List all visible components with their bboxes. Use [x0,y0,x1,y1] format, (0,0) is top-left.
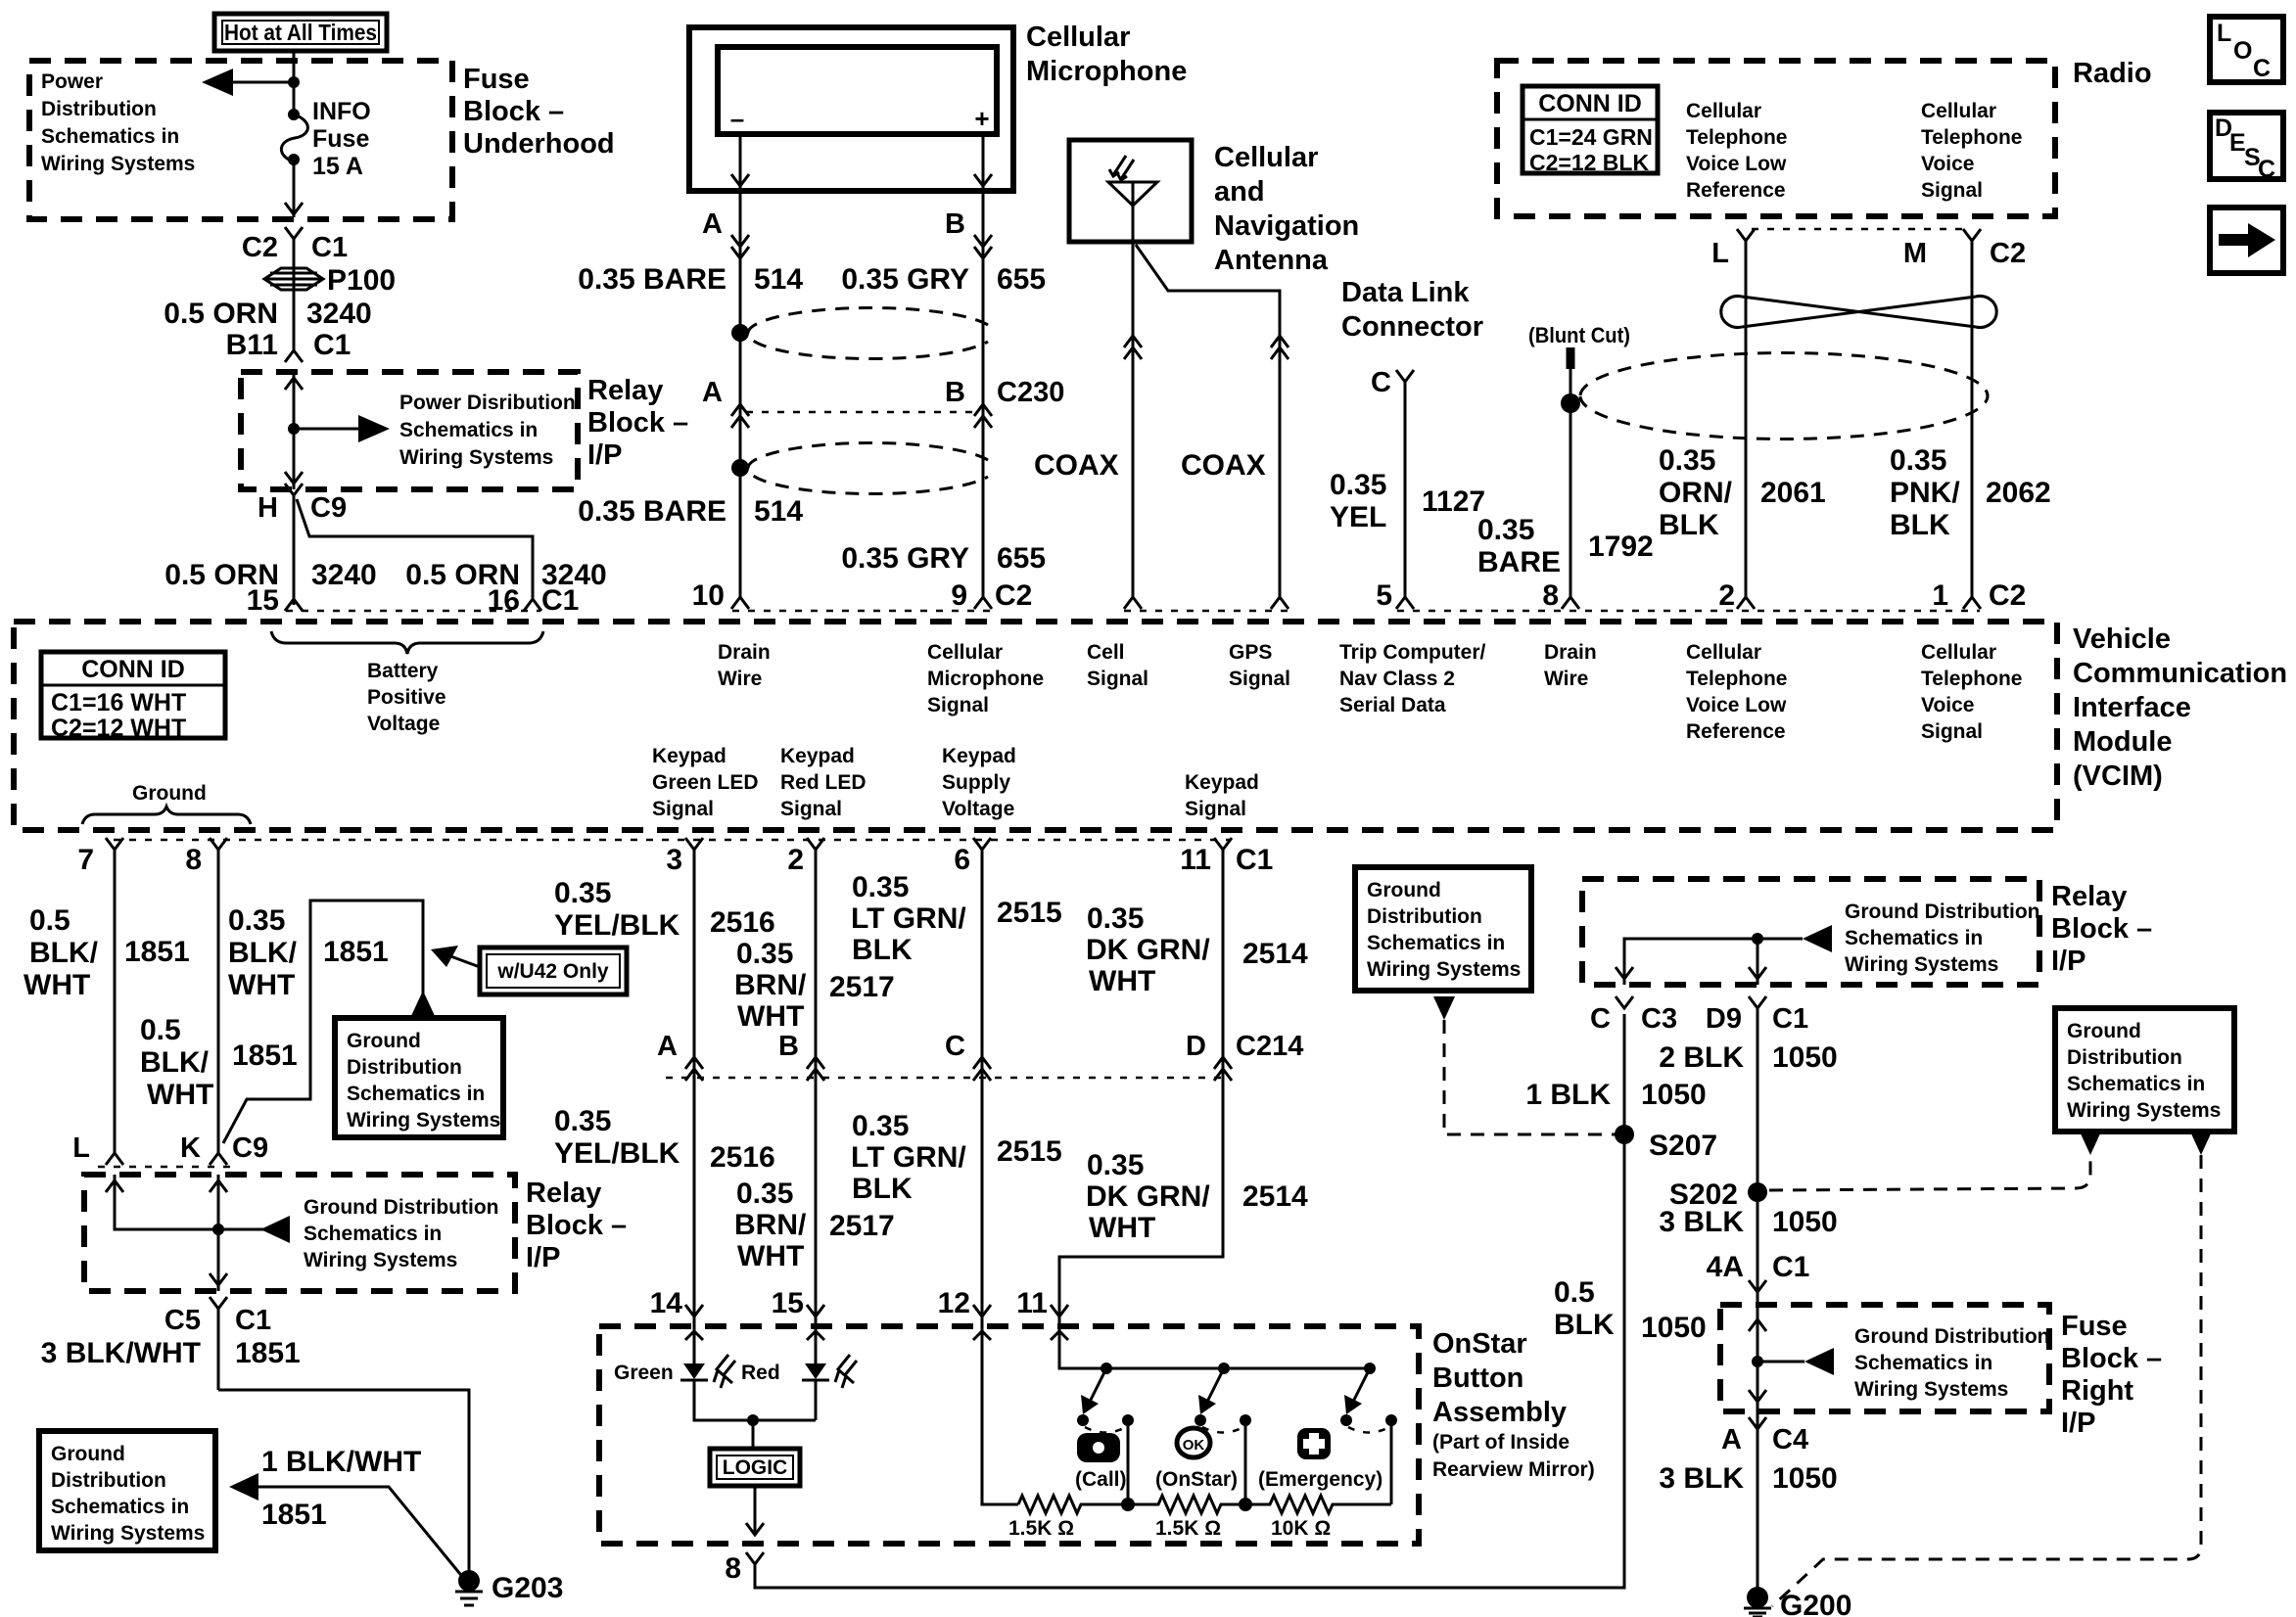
svg-text:C2: C2 [995,579,1032,612]
svg-text:Distribution: Distribution [1367,905,1482,928]
svg-text:10: 10 [692,579,725,612]
svg-text:Block –: Block – [587,407,688,439]
svg-text:1792: 1792 [1588,531,1654,563]
svg-text:–: – [730,104,744,133]
ground distribution schematics box (bottom-left) [39,1431,215,1550]
svg-text:Wiring Systems: Wiring Systems [41,153,195,175]
svg-text:1: 1 [1932,579,1948,612]
svg-text:3240: 3240 [311,559,377,591]
svg-text:P100: P100 [327,264,396,297]
svg-text:Distribution: Distribution [41,98,157,120]
svg-text:Green: Green [614,1362,674,1384]
svg-text:Block –: Block – [463,96,564,127]
wire arrow left power distribution [227,81,294,84]
svg-text:0.35: 0.35 [554,877,611,909]
svg-text:YEL/BLK: YEL/BLK [554,909,680,942]
svg-text:Schematics in: Schematics in [1854,1352,1992,1374]
svg-text:YEL: YEL [1330,501,1386,533]
svg-text:WHT: WHT [737,1240,804,1272]
svg-text:C1=24 GRN: C1=24 GRN [1529,124,1653,150]
svg-text:C2=12 WHT: C2=12 WHT [51,715,186,742]
svg-text:0.35 GRY: 0.35 GRY [841,542,969,575]
svg-text:LT GRN/: LT GRN/ [851,1141,966,1174]
svg-text:C214: C214 [1236,1031,1303,1062]
resistor R1 1.5K ohm (Call) [1018,1496,1128,1513]
svg-text:K: K [180,1132,201,1164]
wires inside right relay block [1624,939,1803,985]
node junction call contact to chain [1121,1498,1135,1511]
svg-text:C: C [2258,156,2275,183]
svg-text:Wiring Systems: Wiring Systems [304,1249,457,1271]
svg-text:BLK: BLK [1659,509,1719,541]
svg-text:Wiring Systems: Wiring Systems [1854,1378,2008,1401]
svg-text:Schematics in: Schematics in [399,419,538,441]
svg-text:Battery: Battery [367,660,439,682]
svg-text:3240: 3240 [306,298,372,330]
svg-text:Distribution: Distribution [2067,1046,2182,1069]
svg-text:0.35 BARE: 0.35 BARE [578,495,726,528]
svg-text:(Blunt Cut): (Blunt Cut) [1528,323,1630,347]
CONN ID box [41,652,225,738]
svg-text:Button: Button [1432,1363,1523,1394]
svg-text:BLK: BLK [1554,1309,1615,1341]
svg-text:D: D [1186,1031,1206,1062]
svg-text:C3: C3 [1641,1003,1677,1035]
svg-text:Cellular: Cellular [927,641,1003,664]
svg-text:C: C [1590,1003,1611,1035]
svg-text:1851: 1851 [232,1039,298,1072]
wires inside relay block [115,1175,218,1291]
svg-text:Relay: Relay [526,1178,601,1209]
svg-text:Block –: Block – [2051,913,2152,945]
svg-text:WHT: WHT [1089,965,1155,997]
svg-text:Telephone: Telephone [1921,126,2022,149]
svg-text:Radio: Radio [2073,58,2152,89]
cellular and navigation antenna box [1069,140,1192,242]
svg-text:Cellular: Cellular [1921,641,1996,664]
big shield ellipse [1580,353,1988,439]
svg-text:1851: 1851 [261,1499,327,1531]
svg-text:WHT: WHT [228,969,295,1001]
svg-text:A: A [702,377,723,408]
svg-text:1851: 1851 [124,936,190,968]
svg-text:ORN/: ORN/ [1659,477,1733,509]
svg-text:+: + [974,104,989,133]
green LED [694,1326,816,1420]
svg-text:Green LED: Green LED [652,771,759,794]
svg-text:5: 5 [1376,579,1392,612]
svg-text:I/P: I/P [2051,946,2085,977]
svg-text:8: 8 [1542,579,1559,612]
svg-text:C2: C2 [1989,579,2026,612]
svg-text:DK GRN/: DK GRN/ [1086,934,1210,966]
svg-text:BRN/: BRN/ [734,969,807,1001]
second shield ellipse with drain dot [731,459,749,477]
svg-text:Keypad: Keypad [652,745,726,767]
svg-text:BLK/: BLK/ [140,1046,210,1079]
wire to ground G203 [218,1390,469,1573]
fuse INFO Fuse 15 A [288,109,300,120]
wire through relay block [293,372,296,489]
svg-text:M: M [1903,238,1927,269]
svg-text:Schematics in: Schematics in [347,1083,485,1105]
svg-text:Red: Red [741,1362,780,1384]
svg-text:7: 7 [77,844,94,876]
mic wire B [982,134,985,597]
svg-text:Block –: Block – [526,1210,627,1241]
svg-text:3: 3 [666,844,682,876]
svg-text:514: 514 [754,263,803,296]
onstar button icon [1177,1428,1210,1457]
svg-text:C2=12 BLK: C2=12 BLK [1529,150,1649,175]
svg-text:C1: C1 [1772,1251,1809,1283]
wire from hot box into fuse block [293,51,296,112]
w/U42 1851 branch [223,901,423,1143]
DESC box [2210,113,2283,179]
svg-text:C1=16 WHT: C1=16 WHT [51,689,186,716]
svg-text:2516: 2516 [710,1141,775,1174]
svg-text:Communication: Communication [2073,658,2287,689]
svg-text:Underhood: Underhood [463,128,615,160]
svg-text:Signal: Signal [1921,179,1983,202]
connector fork C2/C1 [285,227,303,352]
svg-text:WHT: WHT [147,1079,213,1111]
radio box [1497,61,2055,216]
svg-text:Wiring Systems: Wiring Systems [399,446,553,469]
svg-text:2517: 2517 [829,971,895,1003]
svg-text:3 BLK: 3 BLK [1659,1462,1744,1495]
svg-text:0.35: 0.35 [736,1178,793,1210]
resistor R2 1.5K ohm (OnStar) [1128,1496,1245,1513]
svg-text:2 BLK: 2 BLK [1659,1041,1744,1074]
svg-text:Antenna: Antenna [1214,245,1329,276]
fuse block underhood box [29,61,452,219]
svg-text:C1: C1 [311,232,348,263]
svg-text:Data Link: Data Link [1341,277,1470,308]
svg-text:0.35: 0.35 [1477,514,1534,546]
connector A/C4 [1749,1417,1766,1429]
svg-text:Distribution: Distribution [347,1056,462,1079]
svg-text:Power Disribution: Power Disribution [399,392,576,414]
svg-text:6: 6 [954,844,970,876]
svg-text:and: and [1214,176,1265,208]
fuse block right I/P box [1720,1305,2049,1411]
svg-text:C4: C4 [1772,1424,1808,1455]
svg-text:1851: 1851 [323,936,389,968]
svg-text:0.35: 0.35 [736,938,793,970]
svg-text:Voice: Voice [1921,153,1974,175]
svg-text:PNK/: PNK/ [1890,477,1960,509]
svg-text:0.35: 0.35 [1330,469,1386,501]
svg-text:I/P: I/P [587,439,622,471]
w/U42 Only box [480,947,627,994]
svg-text:15: 15 [247,584,279,617]
ground G203 [458,1570,480,1592]
connector fork H/C9 [285,484,303,605]
svg-text:1 BLK: 1 BLK [1525,1079,1611,1111]
svg-text:Relay: Relay [2051,881,2127,912]
splice S207 [1615,1125,1634,1144]
svg-text:WHT: WHT [1089,1212,1155,1244]
svg-text:2515: 2515 [997,897,1062,929]
svg-text:Schematics in: Schematics in [41,125,179,148]
svg-text:C230: C230 [997,377,1064,408]
svg-text:2517: 2517 [829,1210,895,1242]
svg-text:0.35: 0.35 [554,1105,611,1137]
svg-text:G203: G203 [492,1572,563,1604]
relay block I/P box (lower left) [84,1175,515,1291]
resistor R3 10K ohm (Emergency) [1245,1496,1391,1513]
svg-text:WHT: WHT [23,969,90,1001]
svg-text:(VCIM): (VCIM) [2073,761,2163,792]
svg-text:H: H [258,492,278,524]
arrow right to power distribution note [294,428,364,431]
svg-text:Assembly: Assembly [1432,1397,1567,1428]
svg-text:Schematics in: Schematics in [2067,1073,2205,1095]
svg-text:0.35: 0.35 [1087,902,1144,935]
svg-text:C1: C1 [541,584,579,617]
svg-text:0.35 BARE: 0.35 BARE [578,263,726,296]
svg-text:C2: C2 [242,232,278,263]
svg-text:Schematics in: Schematics in [51,1496,189,1518]
svg-text:G200: G200 [1780,1590,1851,1617]
svg-text:1851: 1851 [235,1337,301,1369]
pin 7 wire [106,838,123,1153]
svg-text:Interface: Interface [2073,692,2191,723]
svg-text:WHT: WHT [737,1000,804,1033]
svg-text:3 BLK: 3 BLK [1659,1206,1744,1238]
svg-text:B: B [945,377,965,408]
svg-text:Wiring Systems: Wiring Systems [347,1109,500,1132]
emergency button icon [1297,1428,1331,1459]
svg-text:A: A [702,208,723,240]
node junction onstar contact to chain [1239,1498,1252,1511]
svg-text:Telephone: Telephone [1686,126,1787,149]
svg-text:Ground: Ground [1367,879,1441,901]
svg-text:1 BLK/WHT: 1 BLK/WHT [261,1446,421,1478]
lower wires to OnStar [693,1078,696,1326]
pin 11 wire jog [1059,1078,1223,1326]
svg-text:BLK: BLK [852,934,913,966]
svg-text:Wire: Wire [1544,668,1588,690]
svg-text:Reference: Reference [1686,720,1786,743]
svg-text:Wiring Systems: Wiring Systems [51,1522,205,1545]
connector C/C3 D9/C1 [1616,996,1633,1008]
ground G200 [1747,1587,1768,1608]
svg-text:Keypad: Keypad [780,745,855,767]
svg-text:Nav Class 2: Nav Class 2 [1339,668,1455,690]
svg-text:C5: C5 [164,1305,201,1336]
svg-text:2: 2 [787,844,804,876]
svg-text:L: L [1711,238,1729,269]
shield ellipse with drain dot [731,324,749,342]
svg-text:B11: B11 [226,329,278,361]
svg-text:CONN ID: CONN ID [1538,90,1642,117]
VCIM module box [14,622,2057,830]
svg-text:Voice Low: Voice Low [1686,694,1787,716]
svg-text:Signal: Signal [780,798,842,820]
antenna symbol [1108,182,1157,242]
LOC box [2210,17,2283,82]
svg-text:1050: 1050 [1641,1312,1707,1344]
svg-text:Microphone: Microphone [927,668,1044,690]
svg-text:0.5: 0.5 [140,1014,181,1046]
svg-text:D9: D9 [1706,1003,1742,1035]
svg-text:2: 2 [1718,579,1735,612]
svg-text:Cellular: Cellular [1921,100,1996,122]
ground distribution schematics box (right) [2055,1008,2234,1132]
svg-text:514: 514 [754,495,803,528]
twisted pair symbol [1742,297,1976,327]
wire with down arrow to box edge [293,162,296,217]
keypad pin 2 [807,838,824,1078]
svg-text:Module: Module [2073,726,2173,758]
svg-text:15: 15 [772,1287,804,1319]
svg-text:O: O [2233,37,2252,65]
svg-text:Wiring Systems: Wiring Systems [1367,958,1521,981]
svg-text:8: 8 [725,1552,741,1585]
svg-text:Ground: Ground [347,1030,421,1052]
OnStar button assembly box [599,1326,1419,1544]
CONN ID box in radio [1523,86,1658,173]
svg-text:Signal: Signal [927,694,989,716]
svg-text:15 A: 15 A [312,153,363,180]
svg-text:Ground: Ground [51,1443,125,1465]
relay block I/P box (top) [241,372,578,489]
svg-text:3 BLK/WHT: 3 BLK/WHT [41,1337,201,1369]
svg-text:DK GRN/: DK GRN/ [1086,1180,1210,1213]
pin 8 wire [210,838,227,1153]
svg-text:(Emergency): (Emergency) [1258,1468,1382,1491]
svg-text:(Call): (Call) [1075,1468,1127,1491]
svg-text:Voltage: Voltage [942,798,1014,820]
gps coax wire [1136,245,1280,597]
LOGIC box [710,1449,800,1486]
svg-text:0.35: 0.35 [1087,1149,1144,1181]
svg-text:14: 14 [650,1287,683,1319]
svg-text:2514: 2514 [1242,1180,1308,1213]
svg-text:Red LED: Red LED [780,771,867,794]
svg-text:Drain: Drain [718,641,771,664]
svg-text:Ground: Ground [2067,1020,2141,1042]
svg-text:CONN ID: CONN ID [81,656,185,683]
LOGIC output to pin 8 [754,1486,757,1535]
svg-text:L: L [72,1132,90,1164]
call switch [1101,1363,1112,1374]
svg-text:Signal: Signal [1185,798,1246,820]
radio connector C2 face [1752,228,1966,231]
svg-text:11: 11 [1180,844,1211,876]
svg-text:Connector: Connector [1341,311,1483,343]
keypad pin 6 [973,838,991,1078]
svg-text:1050: 1050 [1772,1462,1838,1495]
svg-text:L: L [2217,20,2231,47]
svg-text:Navigation: Navigation [1214,210,1359,242]
svg-text:Drain: Drain [1544,641,1597,664]
cell signal coax wire [1132,242,1135,597]
svg-text:Keypad: Keypad [942,745,1016,767]
svg-text:COAX: COAX [1181,449,1266,482]
node Hot at All Times box [214,14,387,51]
svg-text:1.5K Ω: 1.5K Ω [1155,1517,1221,1540]
svg-text:655: 655 [997,263,1046,296]
svg-text:655: 655 [997,542,1046,575]
svg-text:Relay: Relay [587,375,663,406]
svg-text:0.5 ORN: 0.5 ORN [164,298,278,330]
svg-text:2515: 2515 [997,1135,1062,1168]
junction to LOGIC [747,1414,759,1426]
svg-text:C: C [1371,367,1391,398]
svg-text:Schematics in: Schematics in [1845,927,1983,949]
svg-text:Telephone: Telephone [1686,668,1787,690]
svg-text:Fuse: Fuse [463,64,530,95]
svg-text:12: 12 [938,1287,970,1319]
svg-text:0.35: 0.35 [228,904,285,937]
svg-text:(Part of Inside: (Part of Inside [1432,1431,1570,1454]
svg-text:Wire: Wire [718,668,762,690]
battery positive voltage brace [271,631,543,654]
connector C5/C1 [210,1297,227,1390]
keypad pin 11 [1214,838,1232,1078]
svg-text:0.5: 0.5 [1554,1276,1595,1309]
svg-text:Rearview Mirror): Rearview Mirror) [1432,1458,1595,1481]
svg-text:Distribution: Distribution [51,1469,166,1492]
svg-text:w/U42 Only: w/U42 Only [496,960,609,983]
svg-text:Power: Power [41,70,103,93]
call button icon [1077,1433,1120,1462]
svg-text:0.35: 0.35 [1890,444,1946,477]
svg-text:Positive: Positive [367,686,446,709]
svg-text:1.5K Ω: 1.5K Ω [1008,1517,1074,1540]
svg-text:BRN/: BRN/ [734,1209,807,1241]
connector forks at VCIM top [285,599,303,611]
svg-text:Signal: Signal [1087,668,1148,690]
svg-text:4A: 4A [1707,1251,1744,1283]
keypad pin 3 [685,838,703,1078]
svg-text:Right: Right [2061,1375,2133,1407]
svg-text:B: B [945,208,965,240]
svg-text:0.35: 0.35 [852,871,909,903]
svg-text:10K Ω: 10K Ω [1271,1517,1331,1540]
svg-text:1050: 1050 [1641,1079,1707,1111]
svg-text:C1: C1 [1236,844,1273,876]
svg-text:Voltage: Voltage [367,713,440,735]
connector face fine-dash lines at VCIM top [286,610,1980,613]
svg-text:8: 8 [185,844,202,876]
ground distribution schematics box (center) [1355,867,1531,991]
svg-text:Voice Low: Voice Low [1686,153,1787,175]
svg-text:Vehicle: Vehicle [2073,624,2171,655]
svg-text:1050: 1050 [1772,1206,1838,1238]
svg-text:C1: C1 [1772,1003,1808,1035]
svg-text:BLK/: BLK/ [29,937,99,969]
svg-text:Trip Computer/: Trip Computer/ [1339,641,1486,664]
svg-text:Ground Distribution: Ground Distribution [1845,901,2039,923]
svg-text:9: 9 [951,579,967,612]
svg-text:YEL/BLK: YEL/BLK [554,1137,680,1170]
svg-text:2062: 2062 [1986,477,2051,509]
connector face fine-dash at VCIM bottom [114,839,1230,842]
svg-text:Signal: Signal [1229,668,1290,690]
svg-text:Cellular: Cellular [1026,22,1130,53]
svg-text:0.5: 0.5 [29,904,70,937]
svg-text:Telephone: Telephone [1921,668,2022,690]
svg-text:Fuse: Fuse [2061,1311,2128,1342]
svg-text:Ground: Ground [132,782,207,805]
svg-text:Signal: Signal [1921,720,1983,743]
svg-text:B: B [778,1031,799,1062]
svg-text:BLK/: BLK/ [228,937,298,969]
